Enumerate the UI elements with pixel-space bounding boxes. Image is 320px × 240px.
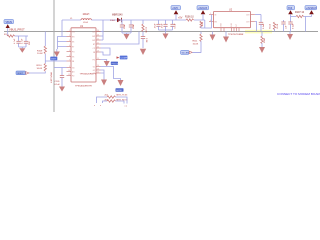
svg-text:PD: PD xyxy=(72,75,75,77)
svg-text:3: 3 xyxy=(69,40,70,42)
wire vertical bus xyxy=(53,0,55,112)
svg-text:FB: FB xyxy=(93,52,96,54)
svg-text:19: 19 xyxy=(97,51,99,53)
svg-text:10.0K: 10.0K xyxy=(193,43,199,45)
svg-text:G1: G1 xyxy=(93,66,95,68)
capacitor C105 xyxy=(55,68,65,87)
svg-text:+5V0: +5V0 xyxy=(172,7,178,10)
svg-text:11: 11 xyxy=(68,74,70,76)
U2 right pins xyxy=(246,14,255,23)
wire R111 to label xyxy=(192,41,201,52)
svg-text:14: 14 xyxy=(97,65,99,67)
svg-text:100uH: 100uH xyxy=(83,14,90,16)
svg-text:x: x xyxy=(94,105,95,107)
U1 right pin names xyxy=(92,31,96,75)
wire divider bottom xyxy=(29,71,46,73)
svg-text:SD_EN: SD_EN xyxy=(182,53,190,55)
svg-text:R106 10: R106 10 xyxy=(185,16,194,18)
power arrow down G2 xyxy=(101,80,107,86)
svg-text:10.0K: 10.0K xyxy=(277,23,279,29)
svg-text:13: 13 xyxy=(97,69,99,71)
svg-text:ILIM: ILIM xyxy=(231,23,233,27)
svg-text:G2: G2 xyxy=(93,70,95,72)
capacitor C113 xyxy=(288,17,294,32)
svg-text:22uF: 22uF xyxy=(124,23,126,29)
ground xyxy=(59,87,65,92)
svg-text:PGOOD: PGOOD xyxy=(112,63,120,65)
net label VBUS2 xyxy=(287,6,295,10)
power arrow down left xyxy=(54,49,60,57)
power arrow down right xyxy=(287,32,293,41)
power arrow down mid xyxy=(210,32,216,41)
highlighted net (yellow) xyxy=(245,30,272,34)
IC U1 xyxy=(71,25,97,88)
svg-text:24: 24 xyxy=(97,30,99,32)
svg-text:C105: C105 xyxy=(55,81,61,83)
svg-text:4.7uF: 4.7uF xyxy=(22,38,24,44)
inductor L104 xyxy=(70,14,91,24)
svg-text:23: 23 xyxy=(97,35,99,37)
svg-text:R112: R112 xyxy=(270,23,272,29)
svg-text:15: 15 xyxy=(97,58,99,60)
U1 right pins xyxy=(96,32,101,74)
capacitor C114 xyxy=(170,20,176,30)
svg-text:SW: SW xyxy=(92,36,95,38)
svg-text:CP: CP xyxy=(93,48,96,50)
svg-text:4: 4 xyxy=(210,20,211,22)
resistor R111 xyxy=(193,32,203,46)
U1 left pin numbers xyxy=(68,30,70,76)
wire SW connections xyxy=(101,32,104,41)
wire divider mid xyxy=(44,54,46,64)
svg-text:+5VAUX: +5VAUX xyxy=(198,7,207,10)
wire cap join xyxy=(122,32,131,34)
wire out riser xyxy=(255,22,257,32)
capacitor C110 xyxy=(162,20,168,30)
svg-text:FB: FB xyxy=(72,61,75,63)
net label EN2 xyxy=(181,50,202,54)
capacitor C111 xyxy=(259,15,265,32)
svg-text:L1: L1 xyxy=(70,18,73,20)
svg-text:VBUS: VBUS xyxy=(6,21,13,24)
svg-text:PG: PG xyxy=(72,51,75,53)
svg-text:50V: 50V xyxy=(29,41,31,45)
power flag arrow xyxy=(201,10,206,20)
svg-text:4.7uF: 4.7uF xyxy=(14,38,16,44)
svg-text:EN: EN xyxy=(215,21,218,23)
wire boost input riser xyxy=(61,20,63,37)
wire divider top xyxy=(44,32,46,47)
wire FB row xyxy=(54,67,67,69)
svg-text:R110: R110 xyxy=(37,65,43,67)
resistor R114 conn xyxy=(105,95,129,99)
wire R107 xyxy=(291,17,312,32)
svg-text:+5V: +5V xyxy=(178,17,183,20)
net label G1 xyxy=(116,88,124,92)
net label tap (solid) xyxy=(50,57,57,61)
resistor R108 EN pullup xyxy=(200,21,204,28)
U1 left pin names xyxy=(72,31,76,77)
svg-text:FLT: FLT xyxy=(236,24,238,27)
U2 left pins xyxy=(209,13,218,23)
svg-text:0.1uF: 0.1uF xyxy=(55,84,61,86)
svg-text:100K: 100K xyxy=(202,21,204,26)
wire G2 down xyxy=(101,70,105,80)
svg-text:x: x xyxy=(100,105,101,107)
svg-text:10.0K: 10.0K xyxy=(37,53,43,55)
connector pin marks xyxy=(94,105,127,108)
svg-text:COMP: COMP xyxy=(121,58,128,60)
svg-text:L104: L104 xyxy=(83,22,89,24)
wire U2 out xyxy=(255,14,261,16)
svg-text:GND: GND xyxy=(221,22,223,26)
svg-text:BT: BT xyxy=(93,44,95,46)
diode D104 xyxy=(110,15,123,23)
svg-text:0.1uF: 0.1uF xyxy=(292,23,294,29)
resistor R106 xyxy=(185,16,194,21)
svg-text:G3: G3 xyxy=(93,73,95,75)
svg-text:PG: PG xyxy=(93,59,96,61)
resistor R113 below rail xyxy=(261,32,266,48)
wire FB loop xyxy=(101,48,111,55)
power flag arrow xyxy=(174,10,179,20)
net label +5V0 xyxy=(171,6,181,10)
svg-text:VBUS_PROT: VBUS_PROT xyxy=(9,28,25,32)
svg-text:SW: SW xyxy=(92,31,95,33)
svg-text:22: 22 xyxy=(97,39,99,41)
wire fb mid xyxy=(142,32,144,37)
svg-text:5: 5 xyxy=(69,50,70,52)
wire SW riser xyxy=(102,20,104,40)
capacitor C109 xyxy=(155,20,161,30)
svg-text:U1: U1 xyxy=(80,25,84,28)
svg-text:0.1uF: 0.1uF xyxy=(263,23,265,29)
svg-text:10.0K: 10.0K xyxy=(37,68,43,70)
wire EN to rail xyxy=(101,32,140,45)
power arrow down G1 xyxy=(118,80,124,86)
svg-text:AGND: AGND xyxy=(116,89,122,92)
svg-text:TPS2557DRBR: TPS2557DRBR xyxy=(228,34,244,36)
capacitor C112 xyxy=(281,20,287,32)
svg-text:R107 10: R107 10 xyxy=(295,11,305,14)
U2 bottom pin names xyxy=(221,22,239,26)
power arrow down fb xyxy=(140,49,146,55)
svg-text:100K: 100K xyxy=(264,37,266,43)
svg-text:SS: SS xyxy=(72,41,75,43)
svg-text:R109: R109 xyxy=(37,50,43,52)
net label VBUS xyxy=(4,20,14,24)
wire U2 EN feed xyxy=(201,15,212,29)
svg-text:3.3K: 3.3K xyxy=(145,38,147,43)
svg-text:10.0K: 10.0K xyxy=(145,27,147,33)
svg-text:6: 6 xyxy=(69,55,70,57)
resistor R109 xyxy=(37,46,47,55)
net label FB xyxy=(117,56,128,60)
net label +5VP xyxy=(197,6,209,10)
net name on tap wire xyxy=(0,0,1,1)
wire cap bottoms join xyxy=(19,46,26,48)
power arrow down PG xyxy=(104,61,110,67)
wire PG down xyxy=(101,60,107,62)
svg-text:47uF: 47uF xyxy=(162,23,164,28)
svg-text:VDET: VDET xyxy=(51,58,57,60)
capacitor C107 xyxy=(129,20,135,33)
U2 bottom pins xyxy=(221,28,239,32)
svg-text:47uF: 47uF xyxy=(155,23,157,28)
svg-text:OUT: OUT xyxy=(246,21,250,23)
wire input cap branch xyxy=(7,32,9,37)
svg-text:RT: RT xyxy=(72,46,74,48)
svg-text:1: 1 xyxy=(69,30,70,32)
power flag arrow xyxy=(288,10,293,16)
wire main VIN rail xyxy=(4,31,318,33)
capacitor C101 xyxy=(14,36,21,47)
ground xyxy=(19,47,25,53)
net name VBUS on rail xyxy=(9,28,25,32)
ground xyxy=(163,34,169,40)
capacitor C102 xyxy=(22,36,32,47)
svg-text:EN: EN xyxy=(72,36,75,38)
wire top L rail xyxy=(62,19,81,21)
svg-text:22uF: 22uF xyxy=(133,23,135,29)
resistor R107 xyxy=(295,11,305,18)
wire tap to U1 xyxy=(45,60,66,62)
svg-text:VDET: VDET xyxy=(17,73,23,75)
note text xyxy=(277,92,320,96)
net label PG xyxy=(111,62,120,66)
svg-text:9: 9 xyxy=(69,66,70,68)
power flag arrow xyxy=(309,10,314,16)
resistor R110 xyxy=(37,64,47,72)
svg-text:GD: GD xyxy=(72,67,75,69)
capacitor C108 xyxy=(141,37,147,49)
net name +5V on wire xyxy=(178,17,183,20)
net label +3V3AUX xyxy=(305,6,317,10)
power flag arrow xyxy=(6,24,10,31)
svg-text:+3V3AUX: +3V3AUX xyxy=(306,7,317,10)
resistor R102 fb top xyxy=(142,20,147,33)
svg-text:0.1uF: 0.1uF xyxy=(174,23,176,29)
svg-text:TPS54620RGYR: TPS54620RGYR xyxy=(75,85,92,87)
svg-text:3V3: 3V3 xyxy=(288,7,293,10)
wire cap row xyxy=(15,35,28,37)
resistor R115 conn xyxy=(105,99,129,102)
ground xyxy=(124,33,130,40)
svg-text:4: 4 xyxy=(69,45,70,47)
svg-text:CONNECT TO MODEM BOARD: CONNECT TO MODEM BOARD xyxy=(277,92,320,96)
svg-text:U2: U2 xyxy=(229,9,233,12)
svg-text:10: 10 xyxy=(68,70,70,72)
svg-text:1uF: 1uF xyxy=(285,25,287,29)
wire G1 down xyxy=(101,67,121,81)
svg-text:R111: R111 xyxy=(193,41,199,43)
svg-text:12: 12 xyxy=(97,72,99,74)
resistor R112 xyxy=(270,22,280,32)
power arrow down U2 gnd xyxy=(223,32,229,43)
wire cap join 2 xyxy=(159,30,173,34)
svg-text:OUT: OUT xyxy=(246,14,250,16)
svg-text:1: 1 xyxy=(210,13,211,15)
net label port left xyxy=(16,71,29,75)
svg-text:x x: x x xyxy=(125,106,128,108)
U1 right pin numbers xyxy=(97,30,99,73)
svg-text:7: 7 xyxy=(69,60,70,62)
IC U2 xyxy=(214,9,251,37)
wire L to SW xyxy=(91,19,117,21)
svg-text:2: 2 xyxy=(69,35,70,37)
capacitor C106 xyxy=(120,20,126,33)
vertical net name text xyxy=(50,72,52,84)
svg-text:VBUS_DET: VBUS_DET xyxy=(50,72,52,84)
resistor R101 xyxy=(4,34,15,37)
power arrow down R113 xyxy=(259,47,265,53)
U1 left pins xyxy=(67,32,72,76)
svg-text:MBRS340: MBRS340 xyxy=(112,15,123,17)
wire output rail top xyxy=(118,19,205,21)
svg-text:MTR_TX 33: MTR_TX 33 xyxy=(117,95,129,97)
svg-text:IN: IN xyxy=(215,14,217,16)
svg-text:AG: AG xyxy=(72,70,75,73)
wire U1 left column xyxy=(58,37,67,50)
svg-text:SW: SW xyxy=(92,40,95,42)
svg-text:21: 21 xyxy=(97,43,99,45)
svg-text:VS: VS xyxy=(72,56,75,58)
wire conn rows xyxy=(97,97,128,104)
svg-text:20: 20 xyxy=(97,47,99,49)
